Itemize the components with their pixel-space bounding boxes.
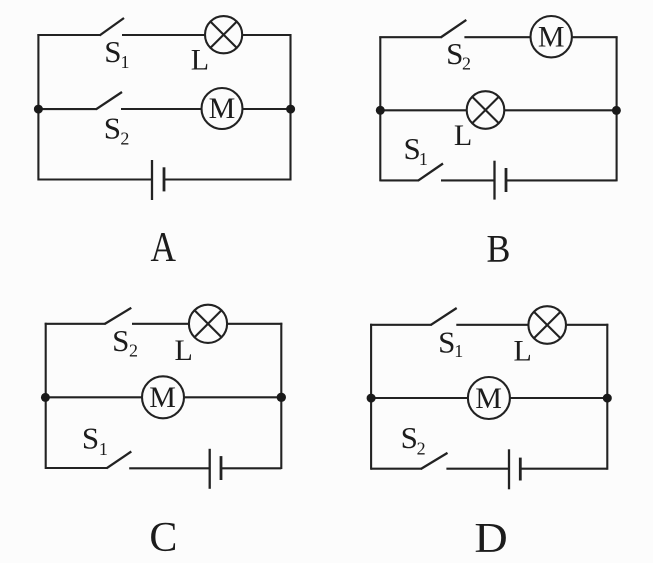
svg-text:2: 2 xyxy=(129,341,138,361)
svg-text:L: L xyxy=(514,334,532,367)
wire right vertical D xyxy=(606,324,608,470)
switch S2 blade (circuit C) xyxy=(104,308,131,324)
svg-text:S: S xyxy=(446,36,463,71)
switch S2 blade (circuit A) xyxy=(96,92,122,109)
svg-text:2: 2 xyxy=(120,128,129,148)
svg-text:A: A xyxy=(150,224,175,271)
wire bottom-right segment D xyxy=(520,468,607,470)
battery long plate (circuit A) xyxy=(151,160,153,200)
svg-text:L: L xyxy=(191,44,209,77)
wire middle-left segment A xyxy=(38,108,97,110)
wire middle-right segment B xyxy=(505,109,617,111)
wire top mid segment A xyxy=(122,34,205,36)
wire top-right segment D xyxy=(566,324,608,326)
wire top-left segment A xyxy=(37,34,100,36)
wire left vertical A xyxy=(37,34,39,181)
battery short plate (circuit B) xyxy=(505,168,508,192)
wire middle-left segment B xyxy=(380,109,466,111)
battery long plate (circuit B) xyxy=(493,161,495,200)
svg-text:S: S xyxy=(82,420,99,455)
wire top mid segment C xyxy=(132,323,189,325)
lamp L (circuit D) xyxy=(528,306,566,344)
wire bottom-left segment D xyxy=(371,468,422,470)
svg-text:C: C xyxy=(149,515,177,561)
motor M (circuit C) xyxy=(142,376,184,418)
wire bottom mid segment D xyxy=(446,468,509,470)
wire bottom-right segment C xyxy=(221,467,281,469)
svg-text:L: L xyxy=(175,334,193,367)
battery long plate (circuit C) xyxy=(209,449,211,489)
svg-text:L: L xyxy=(454,119,472,152)
svg-text:M: M xyxy=(149,381,176,414)
wire top-left segment D xyxy=(370,324,432,326)
svg-text:M: M xyxy=(209,92,236,125)
wire middle-right segment C xyxy=(184,396,281,398)
switch S1 blade (circuit A) xyxy=(100,18,125,36)
svg-text:M: M xyxy=(475,382,502,415)
node left junction (circuit C) xyxy=(41,393,50,402)
svg-text:D: D xyxy=(474,515,507,562)
node right junction (circuit D) xyxy=(603,394,612,403)
switch S1 blade (circuit B) xyxy=(418,164,443,181)
switch S1 blade (circuit C) xyxy=(107,452,132,469)
svg-text:B: B xyxy=(487,228,511,271)
node right junction (circuit A) xyxy=(286,105,295,114)
svg-text:2: 2 xyxy=(462,54,471,74)
svg-text:2: 2 xyxy=(417,439,426,459)
svg-text:1: 1 xyxy=(121,52,130,72)
wire middle-right segment D xyxy=(510,397,607,399)
battery short plate (circuit D) xyxy=(519,458,522,481)
lamp L (circuit A) xyxy=(205,16,242,53)
svg-text:S: S xyxy=(401,420,418,455)
wire middle-left segment C xyxy=(46,396,142,398)
wire top-right segment B xyxy=(572,36,618,38)
wire top-right segment C xyxy=(227,323,282,325)
svg-text:S: S xyxy=(112,323,129,358)
battery short plate (circuit A) xyxy=(163,167,166,191)
lamp L (circuit C) xyxy=(189,305,227,343)
wire middle-left segment D xyxy=(371,397,468,399)
wire left vertical B xyxy=(379,36,381,181)
switch S2 blade (circuit D) xyxy=(421,453,448,469)
motor M (circuit B) xyxy=(531,16,572,57)
motor M (circuit A) xyxy=(202,88,243,129)
node left junction (circuit B) xyxy=(376,106,385,115)
battery long plate (circuit D) xyxy=(508,449,510,489)
svg-text:1: 1 xyxy=(419,149,428,169)
wire middle segment A xyxy=(121,108,202,110)
wire left vertical C xyxy=(45,323,47,469)
switch S1 blade (circuit D) xyxy=(431,308,457,325)
switch S2 blade (circuit B) xyxy=(441,20,467,38)
wire bottom-right segment B xyxy=(506,179,617,181)
node right junction (circuit B) xyxy=(612,106,621,115)
wire top mid segment D xyxy=(456,324,528,326)
svg-text:M: M xyxy=(538,21,565,54)
wire right vertical C xyxy=(280,323,282,469)
wire middle-right segment A xyxy=(243,108,291,110)
node left junction (circuit D) xyxy=(367,394,376,403)
lamp L (circuit B) xyxy=(467,91,505,129)
motor M (circuit D) xyxy=(468,377,510,419)
svg-text:S: S xyxy=(104,34,121,69)
wire bottom-right segment A xyxy=(164,178,291,180)
wire right vertical A xyxy=(289,34,291,181)
wire bottom-left segment A xyxy=(38,178,152,180)
wire top-right segment A xyxy=(242,34,291,36)
wire bottom-left segment B xyxy=(380,179,419,181)
wire left vertical D xyxy=(370,324,372,470)
svg-text:1: 1 xyxy=(454,341,463,361)
wire top mid segment B xyxy=(464,36,530,38)
battery short plate (circuit C) xyxy=(220,456,223,480)
svg-text:1: 1 xyxy=(99,439,108,459)
wire top-left segment C xyxy=(45,323,106,325)
node left junction (circuit A) xyxy=(34,105,43,114)
wire right vertical B xyxy=(616,36,618,181)
node right junction (circuit C) xyxy=(277,393,286,402)
wire bottom mid segment B xyxy=(441,179,495,181)
wire bottom mid segment C xyxy=(129,467,210,469)
wire bottom-left segment C xyxy=(46,467,108,469)
wire top-left segment B xyxy=(379,36,441,38)
svg-text:S: S xyxy=(438,325,455,360)
svg-text:S: S xyxy=(104,111,121,146)
